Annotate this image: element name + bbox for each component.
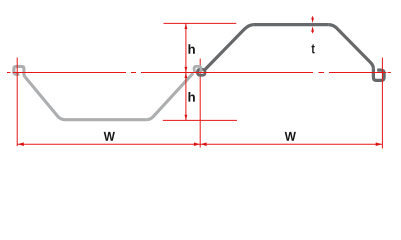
W mid arrowhead (points left) (201, 142, 207, 146)
top extension line (flange top level) (164, 22, 237, 24)
h top arrowhead (up) (185, 23, 188, 29)
t lower arrowhead (up) (311, 26, 314, 32)
left interlock claw (14, 66, 25, 76)
sheet pile profile right (dark gray) (194, 25, 384, 81)
h arrowhead (up, tip at centerline) (185, 73, 188, 79)
top flange (254, 23, 328, 26)
sheet pile U-profile left (light gray) (14, 66, 193, 119)
right web diagonal (146, 73, 193, 120)
label h lower (189, 92, 195, 102)
node: middle interlock vertical extension line (under profiles) (199, 59, 201, 148)
label t (312, 44, 315, 53)
middle interlock: light loop (194, 66, 201, 72)
W mid arrowhead (points right) (194, 142, 200, 146)
label W left (104, 132, 115, 141)
h bottom arrowhead (down) (185, 115, 188, 121)
bottom extension line (flange bottom level) (163, 119, 237, 121)
bottom flange (65, 118, 146, 121)
centerline (dash-dot) (7, 72, 391, 74)
left web diagonal (rising) (205, 25, 254, 70)
W right arrowhead (376, 142, 382, 146)
light loop overlap (chain-link weave) (194, 66, 201, 71)
right vertical extension line (381, 58, 383, 149)
label h upper (189, 44, 195, 54)
middle interlock: dark loop (198, 69, 205, 75)
t arrow tails (312, 16, 314, 33)
W dimension line left (17, 143, 200, 145)
right web diagonal (falling) (328, 25, 373, 69)
label W right (285, 132, 296, 141)
t upper arrowhead (down) (311, 18, 314, 23)
h dimension line (185, 23, 187, 120)
h arrowhead (down, tip at centerline) (185, 67, 188, 73)
red dimension lines (7, 16, 391, 148)
left vertical extension line (16, 58, 18, 147)
W dimension line right (200, 143, 382, 145)
left web diagonal (25, 77, 65, 120)
right interlock hook (373, 68, 384, 80)
W left arrowhead (18, 142, 24, 146)
